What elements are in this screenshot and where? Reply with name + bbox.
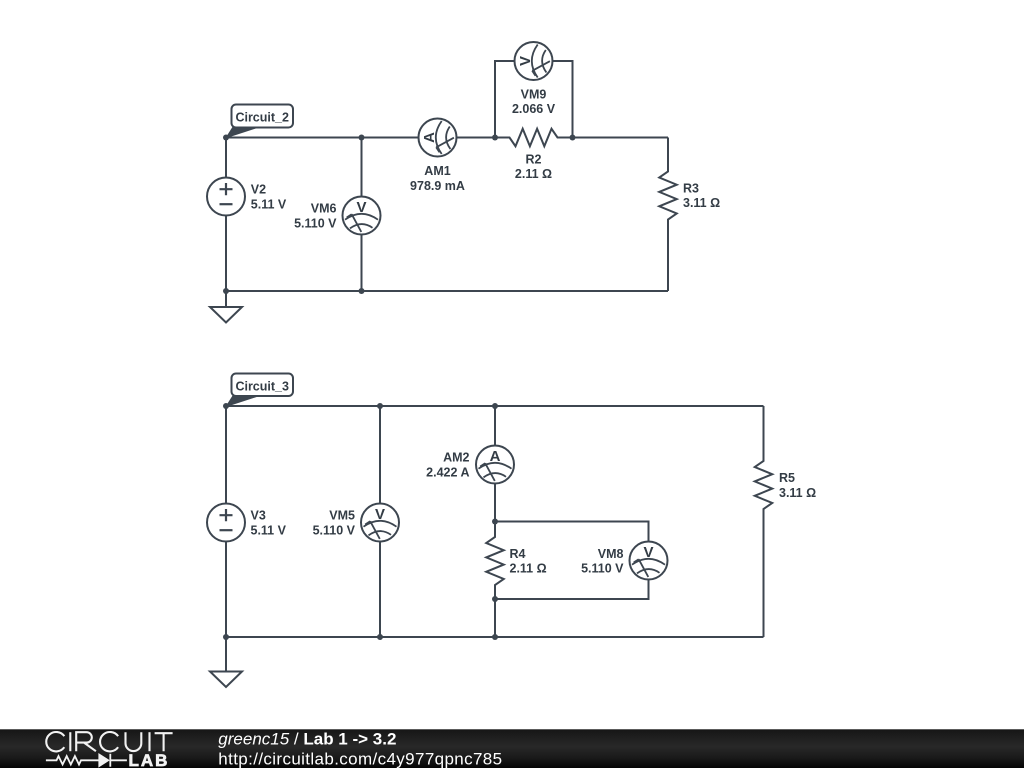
svg-text:V3: V3 <box>251 509 266 523</box>
svg-text:V: V <box>643 544 653 561</box>
svg-text:2.11 Ω: 2.11 Ω <box>515 167 552 181</box>
svg-text:3.11 Ω: 3.11 Ω <box>779 486 816 500</box>
resistor R3 <box>659 138 720 292</box>
wire top rail <box>226 405 764 407</box>
node label Circuit_3 <box>226 374 293 407</box>
ammeter AM1 <box>410 119 465 193</box>
wire bottom rail <box>226 290 668 292</box>
junction <box>492 519 498 525</box>
svg-text:A: A <box>421 132 438 143</box>
logo resistor-diode symbol <box>46 754 127 767</box>
footer bar <box>0 729 1024 768</box>
svg-text:AM2: AM2 <box>443 451 469 465</box>
junction <box>359 135 365 141</box>
svg-text:5.11 V: 5.11 V <box>251 198 287 212</box>
ground (circuit 2) <box>210 291 242 323</box>
junction <box>377 634 383 640</box>
junction <box>492 135 498 141</box>
svg-text:VM8: VM8 <box>598 547 624 561</box>
svg-text:A: A <box>490 448 501 465</box>
svg-text:R4: R4 <box>510 547 526 561</box>
junction <box>359 288 365 294</box>
wire top rail left segment <box>226 137 419 139</box>
voltmeter VM6 <box>294 138 380 292</box>
svg-text:greenc15 / Lab 1 -> 3.2: greenc15 / Lab 1 -> 3.2 <box>218 730 396 749</box>
resistor R2 <box>495 129 573 181</box>
junction <box>223 634 229 640</box>
svg-text:AM1: AM1 <box>424 164 450 178</box>
voltmeter VM9 <box>495 42 573 138</box>
svg-text:LAB: LAB <box>129 751 170 768</box>
svg-text:5.110 V: 5.110 V <box>313 523 356 537</box>
svg-text:Circuit_3: Circuit_3 <box>235 380 289 394</box>
svg-text:2.11 Ω: 2.11 Ω <box>510 562 547 576</box>
svg-text:2.422 A: 2.422 A <box>426 465 469 479</box>
junction <box>492 634 498 640</box>
resistor R5 <box>755 406 816 637</box>
svg-text:http://circuitlab.com/c4y977qp: http://circuitlab.com/c4y977qpnc785 <box>218 750 502 768</box>
svg-text:5.11 V: 5.11 V <box>251 524 287 538</box>
voltage source V3 <box>207 406 287 637</box>
svg-text:5.110 V: 5.110 V <box>294 216 337 230</box>
junction <box>492 596 498 602</box>
svg-text:V: V <box>517 56 534 66</box>
wire top rail right segment <box>573 137 669 139</box>
svg-text:V2: V2 <box>251 183 266 197</box>
svg-text:2.066 V: 2.066 V <box>512 102 556 116</box>
junction <box>570 135 576 141</box>
svg-text:R2: R2 <box>526 152 542 166</box>
svg-text:Circuit_2: Circuit_2 <box>235 111 289 125</box>
CircuitLab logo wordmark CIRCUIT <box>46 732 172 751</box>
junction <box>492 403 498 409</box>
svg-text:V: V <box>375 506 385 523</box>
node label Circuit_2 <box>226 105 293 138</box>
svg-text:R3: R3 <box>683 182 699 196</box>
junction <box>223 403 229 409</box>
junction <box>223 288 229 294</box>
junction <box>377 403 383 409</box>
junction <box>223 135 229 141</box>
wire top rail mid segment <box>457 137 496 139</box>
resistor R4 <box>486 522 546 600</box>
wire R4 branch to bottom rail <box>494 599 496 637</box>
svg-text:978.9 mA: 978.9 mA <box>410 179 465 193</box>
svg-text:V: V <box>356 199 366 216</box>
ground (circuit 3) <box>210 637 242 687</box>
wire bottom rail <box>226 636 764 638</box>
ammeter AM2 <box>426 406 514 522</box>
voltmeter VM8 <box>495 522 668 600</box>
svg-text:VM9: VM9 <box>521 87 547 101</box>
svg-text:VM5: VM5 <box>329 508 355 522</box>
svg-text:R5: R5 <box>779 471 795 485</box>
voltmeter VM5 <box>313 406 399 637</box>
svg-text:VM6: VM6 <box>311 201 337 215</box>
voltage source V2 <box>207 138 287 292</box>
svg-text:3.11 Ω: 3.11 Ω <box>683 196 720 210</box>
svg-text:5.110 V: 5.110 V <box>581 562 624 576</box>
